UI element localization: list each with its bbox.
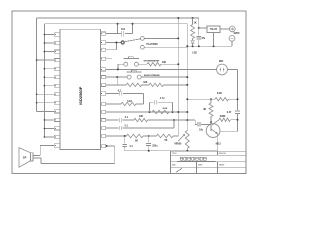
svg-text:104: 104 [121,28,126,31]
svg-text:TITLE: TITLE [172,153,178,155]
svg-text:10K: 10K [162,62,167,64]
svg-text:SFORW/RESET: SFORW/RESET [144,60,161,62]
svg-text:SENT/STRN/SE: SENT/STRN/SE [144,75,160,77]
svg-text:LED: LED [192,52,197,54]
svg-text:200K: 200K [163,108,168,110]
svg-text:DWG NO: DWG NO [219,153,227,155]
svg-text:5K: 5K [135,141,138,143]
svg-text:0.47: 0.47 [227,111,232,114]
svg-text:5.1K: 5.1K [127,101,132,103]
svg-text:8.2K: 8.2K [217,93,222,95]
svg-text:SHEET: SHEET [219,164,226,166]
svg-text:10u: 10u [199,129,204,131]
svg-text:78L05: 78L05 [210,27,218,31]
svg-text:220u: 220u [152,145,158,147]
svg-text:SP: SP [23,155,27,159]
svg-text:0.1: 0.1 [125,125,129,127]
svg-text:1K: 1K [194,22,197,24]
svg-text:47u: 47u [201,37,206,40]
svg-text:9013: 9013 [216,143,222,145]
svg-text:220R: 220R [220,116,226,118]
svg-text:0.1: 0.1 [125,117,129,119]
svg-text:10K: 10K [143,82,148,84]
svg-text:MIC: MIC [219,61,224,63]
svg-text:PLAY/REC: PLAY/REC [147,43,159,46]
svg-text:3K: 3K [203,109,206,111]
svg-text:SIZE: SIZE [172,164,177,166]
svg-text:0.1: 0.1 [118,90,122,92]
svg-text:0.1: 0.1 [130,146,134,148]
svg-text:9VDC: 9VDC [234,33,240,35]
svg-text:ISD2560P: ISD2560P [78,86,83,105]
svg-text:10K: 10K [139,116,144,118]
svg-text:4.7u: 4.7u [160,97,165,100]
svg-text:5K: 5K [165,140,168,142]
svg-text:DATE: DATE [198,163,203,166]
svg-text:VR500: VR500 [174,144,182,146]
